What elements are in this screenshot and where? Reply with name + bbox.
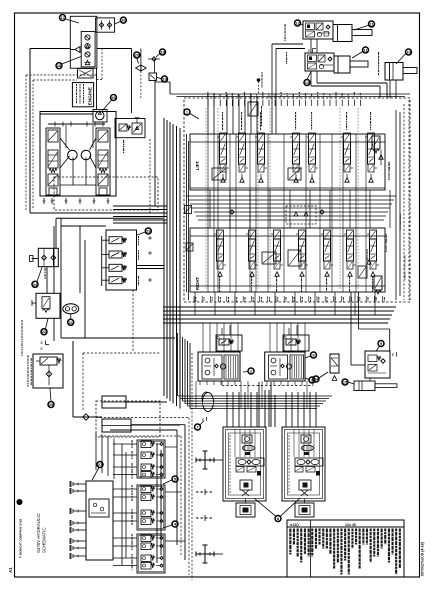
ENGINE box xyxy=(72,83,93,107)
callout 21 xyxy=(68,319,74,325)
dashed internal verticals xyxy=(205,108,207,290)
right pilot upper box xyxy=(283,335,309,351)
svg-text:19: 19 xyxy=(160,50,165,55)
svg-text:LIFT: LIFT xyxy=(195,161,200,170)
svg-text:24: 24 xyxy=(33,282,38,287)
bypass spool xyxy=(40,357,57,365)
svg-text:6570027enUS (4-18): 6570027enUS (4-18) xyxy=(421,541,425,576)
axle tick 1 xyxy=(196,491,214,493)
fan valve element 4 xyxy=(85,60,89,64)
callout 19b xyxy=(162,76,168,82)
wire: pilot bottom drops xyxy=(195,381,197,408)
valve bottom port label row xyxy=(193,296,195,302)
wire: main return y213 xyxy=(30,212,167,214)
fan motor sub-box xyxy=(96,18,115,32)
lower spool AUX xyxy=(324,230,331,239)
callout 22 xyxy=(41,329,47,335)
dashed cooler enclosure xyxy=(96,401,160,437)
wire: cluster right links xyxy=(165,446,177,448)
axle tick 2 xyxy=(196,517,214,519)
charge relief block xyxy=(115,119,145,138)
charge relief valve 1 xyxy=(119,124,127,131)
gerotor motor oval xyxy=(63,304,79,314)
callout 23 xyxy=(145,228,151,234)
left pilot upper box xyxy=(216,335,242,351)
quick coupler group 3 box xyxy=(137,534,165,573)
bypass check xyxy=(46,371,52,377)
callout 18 xyxy=(56,63,62,69)
svg-text:© BOBCAT COMPANY 2018: © BOBCAT COMPANY 2018 xyxy=(19,519,23,558)
wire: fan supply line left xyxy=(30,48,70,50)
case drain arrow symbol xyxy=(75,47,80,53)
wire: vertical feed x30 xyxy=(29,49,31,214)
dashed long vertical x192 xyxy=(191,353,193,580)
svg-text:15: 15 xyxy=(343,380,348,385)
svg-text:22: 22 xyxy=(42,329,47,334)
pump port ticks bottom xyxy=(43,198,45,204)
coupler valve V12 xyxy=(141,563,151,570)
aux check right xyxy=(51,255,56,260)
tilt label vertical xyxy=(378,52,379,55)
wire: drive motor feed verticals right xyxy=(285,392,287,427)
wire: verticals valve-to-bus xyxy=(194,292,196,315)
svg-text:26: 26 xyxy=(111,95,116,100)
callout 1 valve xyxy=(184,109,190,115)
callout 8b xyxy=(311,352,317,358)
lift cylinder B rod xyxy=(350,61,368,67)
wire: drop from breather x155 xyxy=(154,59,156,73)
nested enclosure L1 dashed xyxy=(96,417,189,419)
wire: enclosure top y218 xyxy=(56,217,163,219)
coupler valve V8 xyxy=(141,518,151,525)
callout 26 xyxy=(111,95,117,101)
wire: enclosure bottom y338 xyxy=(61,337,175,339)
wire: manifold feed x85 xyxy=(84,240,86,338)
callout 24 xyxy=(32,281,38,287)
solenoid valve SV4 xyxy=(109,277,122,284)
callout 5 xyxy=(172,476,178,482)
aux check left xyxy=(42,255,47,260)
left pilot control block xyxy=(198,352,240,381)
lift cylinder A barrel xyxy=(333,25,352,42)
fan motor check valve right xyxy=(107,23,111,27)
svg-text:14: 14 xyxy=(314,377,319,382)
wire: riser x73 from y341 xyxy=(72,341,74,417)
aux pump block xyxy=(38,248,58,266)
legend column texts xyxy=(289,529,291,533)
svg-text:TO FRONT AUX: TO FRONT AUX xyxy=(399,213,402,230)
lower spool row box xyxy=(190,228,385,292)
callout 15b xyxy=(342,379,348,385)
coupler valve V5 xyxy=(141,486,151,493)
oil cooler box upper xyxy=(102,396,126,408)
callout 20 xyxy=(134,52,140,58)
left axle cross front xyxy=(196,459,214,461)
right solid line x396 xyxy=(395,110,397,300)
oil cooler box lower xyxy=(102,419,131,432)
callout 11a xyxy=(369,21,375,27)
svg-text:◄12Q: ◄12Q xyxy=(289,523,299,527)
upper spool BOOM xyxy=(258,133,265,142)
anti-drift block dashed xyxy=(286,206,316,224)
coupler valve V2 xyxy=(141,452,151,459)
wire: enclosure left x56 xyxy=(55,218,57,248)
lower spool BOOM xyxy=(274,230,281,239)
upper spool AUX xyxy=(293,133,300,142)
wire: manifold bottom drop dashed xyxy=(132,290,134,352)
return filter symbol xyxy=(77,69,93,79)
coupler valve V7 xyxy=(141,510,151,517)
lower spool TRAVEL xyxy=(217,230,224,239)
svg-text:SCHEMATIC: SCHEMATIC xyxy=(42,527,47,553)
wire: lift feed risers xyxy=(272,43,303,45)
callout 2 xyxy=(248,368,254,374)
callout 10 xyxy=(406,49,412,55)
wire: trunk top lines y94-96 xyxy=(169,82,171,94)
nested enclosure L3 dashed xyxy=(100,435,181,437)
wire: manifold feeds down xyxy=(95,432,97,470)
fan valve element 3 xyxy=(85,52,90,57)
callout 14 xyxy=(313,376,319,382)
svg-text:19: 19 xyxy=(162,77,167,82)
solenoid valve SV1 xyxy=(109,237,122,244)
wire: fan block bottom drop x96.5 xyxy=(96,68,98,109)
right dashed line x409 xyxy=(408,100,410,300)
svg-text:27: 27 xyxy=(98,462,103,467)
wire: riser x54 upper xyxy=(53,226,55,293)
fan valve inner cartridge box xyxy=(81,32,95,67)
upper spool RELIEF xyxy=(368,133,375,142)
manifold port ticks xyxy=(73,483,86,485)
coil symbol on trunk xyxy=(202,392,210,404)
right servo valve stack xyxy=(96,128,110,195)
nested enclosure L4 solid xyxy=(110,429,177,431)
upper spool row box xyxy=(190,134,385,190)
wire: left pilot top feeds xyxy=(202,323,204,352)
fan valve element 2 xyxy=(85,44,90,49)
tilt cylinder barrel xyxy=(385,63,403,81)
wire: cluster risers xyxy=(121,444,123,565)
wire: fan line right xyxy=(97,48,132,50)
callout 25 xyxy=(48,402,54,408)
right pilot control block xyxy=(265,352,305,381)
wire bus: pump to valve harness xyxy=(113,205,167,207)
note text left margin xyxy=(22,320,23,322)
callout 8 xyxy=(275,516,281,522)
right solid line x400 xyxy=(399,112,401,296)
wire bus: trunk feeds from manifold y266-273 xyxy=(137,265,165,267)
svg-text:20: 20 xyxy=(135,53,140,58)
boom lock valve xyxy=(248,102,258,116)
callout 13 xyxy=(304,80,310,86)
svg-text:12►40: 12►40 xyxy=(345,523,356,527)
lower row sub boxes xyxy=(262,252,276,264)
wire: dashed pilot from filter xyxy=(82,353,84,411)
svg-text:10: 10 xyxy=(406,50,411,55)
wire: dashed drive links xyxy=(214,459,223,461)
wire: coupler right bus xyxy=(156,443,158,563)
callout 9 xyxy=(378,341,384,347)
valve gallery line upper xyxy=(190,141,385,143)
wire: manifold feed x80 xyxy=(79,226,81,293)
lift label vertical xyxy=(285,24,286,27)
right pilot port ticks xyxy=(266,381,268,385)
seat bar cylinder xyxy=(354,381,375,391)
svg-text:18: 18 xyxy=(57,63,62,68)
wire: valve left double edge xyxy=(186,134,188,292)
fan motor check valve left xyxy=(99,23,103,27)
svg-text:25: 25 xyxy=(49,402,54,407)
wire: right block routing xyxy=(350,292,352,365)
wire: verticals to drive motors mid xyxy=(258,382,260,427)
cooler bypass diamond xyxy=(83,414,89,420)
lower spool OPTN xyxy=(299,230,306,239)
rotary coupling coil xyxy=(203,393,214,412)
lift cylinder valve block B xyxy=(305,53,334,71)
coupler valve V11 xyxy=(141,555,151,562)
wire: enclosure left x61 xyxy=(60,218,62,338)
svg-text:A1: A1 xyxy=(8,567,13,573)
solenoid valve SV3 xyxy=(109,264,122,271)
wire: link y82 to trunk xyxy=(155,81,170,83)
foot relief valve lower xyxy=(374,276,382,290)
wire: dashed L at x102 xyxy=(101,49,103,80)
left servo valve stack xyxy=(46,128,60,195)
wire: route to tilt cylinder xyxy=(317,82,387,84)
coupler valve V9 xyxy=(141,535,151,542)
wire: enclosure top2 y226 xyxy=(61,225,106,227)
port relief block right xyxy=(365,351,390,378)
wire: dashed drop from orifice xyxy=(140,71,142,98)
brake release port xyxy=(32,302,36,304)
wire: charge line y114 xyxy=(40,113,93,115)
wire: cooler line y417 xyxy=(73,416,102,418)
svg-text:21: 21 xyxy=(68,320,73,325)
coupler valve V1 xyxy=(141,441,151,448)
upper spool BKT xyxy=(309,133,316,142)
wire: cylinder block drops xyxy=(310,39,312,53)
callout 16 xyxy=(120,17,126,23)
wire: drive motor feed verticals left xyxy=(226,392,228,427)
dashed pilot line left pair xyxy=(25,75,27,210)
left pilot port ticks xyxy=(199,381,201,385)
coupler valve V6 xyxy=(141,494,151,501)
dashed case drain box under pumps xyxy=(54,177,158,210)
filter bypass block xyxy=(33,354,63,388)
nested enclosure L2 solid xyxy=(131,424,185,426)
svg-text:13: 13 xyxy=(305,80,310,85)
callout 7b xyxy=(195,424,201,430)
wire: tilt drops xyxy=(389,80,391,98)
wire: valve top feeds xyxy=(207,94,209,134)
node: pilot dot xyxy=(257,79,260,82)
wire: row connect verticals xyxy=(209,190,211,228)
coupler valve V3 xyxy=(141,464,151,471)
aux port tick xyxy=(32,258,39,260)
lower spool FRONT xyxy=(347,230,354,239)
svg-text:RIGHT: RIGHT xyxy=(195,277,200,290)
wire bus: six vertical trunk lines xyxy=(163,118,165,396)
callout 3 xyxy=(309,377,315,383)
wire: valve internal verticals full height xyxy=(207,134,209,292)
wire: motor block bus verticals xyxy=(268,390,270,427)
lower spool ARM xyxy=(370,230,377,239)
lower spool TILT xyxy=(249,230,256,239)
coupler valve V10 xyxy=(141,543,151,550)
brake valve spool xyxy=(42,297,50,309)
upper spool TILT xyxy=(239,133,246,142)
solenoid manifold box xyxy=(106,230,137,290)
breather component xyxy=(149,73,157,81)
wire: pump cross lines xyxy=(60,138,70,150)
aux pump label xyxy=(45,268,46,271)
foot relief valve upper xyxy=(372,136,380,149)
small bus valve comp xyxy=(185,206,192,214)
lift cylinder valve block A xyxy=(303,21,333,39)
bypass labels small xyxy=(28,355,29,358)
solenoid stub wires xyxy=(102,239,109,241)
left drive motor block xyxy=(223,427,266,501)
coupler valve V4 xyxy=(141,472,151,479)
charge pump circle xyxy=(93,110,107,123)
quick coupler group 1 box xyxy=(137,440,165,478)
wire: pump internal verticals xyxy=(65,125,67,148)
left axle cross rear xyxy=(196,553,214,555)
wire: lower bus y307-323 xyxy=(163,306,396,308)
upper spool TRAVEL xyxy=(220,133,227,142)
charge text xyxy=(123,140,124,143)
wire: riser x54 down xyxy=(53,318,55,341)
wire: lower harness routed through coupling xyxy=(177,333,179,396)
front aux manifold block xyxy=(86,481,113,560)
svg-text:FOOT RELIEF: FOOT RELIEF xyxy=(387,161,391,180)
wire: cooler outlet right xyxy=(126,401,167,403)
legend table frame xyxy=(287,520,404,577)
brake valve block xyxy=(36,293,60,318)
callout 17 xyxy=(60,15,66,21)
svg-text:S470V HYDRAULIC: S470V HYDRAULIC xyxy=(36,513,41,553)
svg-text:CHARGE TO OIL COOLER: CHARGE TO OIL COOLER xyxy=(404,255,407,280)
svg-text:12: 12 xyxy=(295,21,300,26)
svg-text:23: 23 xyxy=(146,229,151,234)
load check diamonds mid xyxy=(230,210,234,214)
callout 4 xyxy=(172,521,178,527)
callout 27 xyxy=(97,462,103,468)
svg-text:16: 16 xyxy=(121,18,126,23)
valve gallery line lower xyxy=(190,235,385,237)
svg-text:ENGINE: ENGINE xyxy=(88,86,94,105)
tilt cylinder rod xyxy=(403,68,417,74)
wire: right pilot top feeds xyxy=(269,323,271,352)
wire: manifold feed x101.7 xyxy=(101,236,103,286)
inline check diamond xyxy=(152,57,156,61)
svg-text:E: E xyxy=(41,340,44,345)
wire: mid bus horizontals xyxy=(186,195,396,197)
right drive motor block xyxy=(282,427,325,501)
wire: orifice feed x140.9 xyxy=(140,49,142,66)
servo pressure line with ticks xyxy=(48,123,105,125)
solenoid right labels xyxy=(138,236,139,238)
pump rotary group right xyxy=(81,150,91,160)
callout 19 xyxy=(160,49,166,55)
wire: vertical drop x131.5 xyxy=(131,48,133,113)
svg-text:FOOT RELIEF: FOOT RELIEF xyxy=(384,233,388,252)
main valve dashed enclosure xyxy=(184,98,410,302)
lift cylinder A rod xyxy=(352,30,372,36)
upper spool PORT xyxy=(344,133,351,142)
callout 11b xyxy=(363,47,369,53)
fan valve element 1 xyxy=(85,35,90,40)
wire: aux riser xyxy=(46,267,48,293)
pilot filter xyxy=(330,354,339,373)
lift cylinder B barrel xyxy=(334,56,350,73)
main valve port label row xyxy=(207,100,209,107)
svg-text:17: 17 xyxy=(60,15,65,20)
orifice check component xyxy=(136,65,141,71)
charge relief valve 2 xyxy=(132,123,142,134)
svg-text:ARM LOCK: ARM LOCK xyxy=(366,249,369,262)
pilot dashed link xyxy=(222,385,313,387)
quick coupler group 2 box xyxy=(137,485,165,530)
fan valve block outer box xyxy=(70,16,97,68)
upper row sub boxes xyxy=(212,168,226,180)
manifold inner box xyxy=(89,499,109,517)
arm lock valve xyxy=(358,266,367,278)
callout 12 xyxy=(295,20,301,26)
dashed drop from charge relief xyxy=(149,139,151,213)
Bobcat logo bullet xyxy=(17,499,23,505)
hydrostatic pump outer box xyxy=(40,112,116,197)
right dashed line x404 xyxy=(403,104,405,300)
solenoid valve SV2 xyxy=(109,251,122,258)
pump rotary group left xyxy=(68,150,78,160)
